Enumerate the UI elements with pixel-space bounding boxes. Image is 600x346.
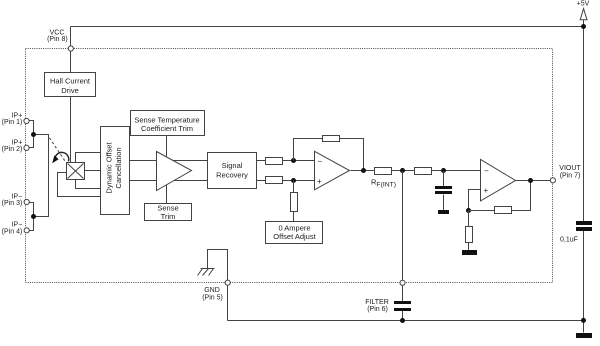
svg-text:+5V: +5V	[577, 0, 590, 7]
wire DOC to amp1 lower	[130, 180, 161, 182]
node amp2 plus	[291, 178, 296, 183]
node IP- junction	[31, 214, 36, 219]
svg-text:Dynamic Offset: Dynamic Offset	[105, 142, 114, 194]
wire to ground bar	[468, 243, 470, 251]
pin IP- 4 circle	[24, 228, 29, 233]
pin VIOUT circle	[550, 178, 555, 183]
hall current drive wire	[70, 97, 72, 163]
svg-text:−: −	[318, 157, 323, 166]
flux direction curved arrow	[52, 152, 69, 163]
resistor amp3 gain	[466, 227, 473, 243]
svg-text:Drive: Drive	[61, 86, 79, 95]
wire R2 to amp3	[432, 170, 481, 172]
svg-text:Recovery: Recovery	[216, 171, 248, 180]
svg-text:(Pin 1): (Pin 1)	[2, 119, 23, 126]
op-amp A3	[481, 159, 516, 201]
wire signal recovery to amp2 upper	[257, 160, 315, 162]
ground supply bar	[576, 333, 592, 338]
op-amp A2	[315, 151, 350, 190]
IC package boundary (dotted)	[26, 49, 553, 283]
svg-text:GND: GND	[204, 287, 220, 294]
wire primary conductor IP+ to IP-	[27, 121, 49, 231]
svg-text:Signal: Signal	[222, 161, 243, 170]
box 0 Ampere Offset Adjust	[266, 222, 323, 244]
pin GND circle	[225, 280, 230, 285]
svg-text:(Pin 3): (Pin 3)	[2, 200, 23, 207]
svg-text:Trim: Trim	[161, 212, 176, 221]
wire resistor to ground	[468, 211, 470, 227]
resistor offset adjust	[291, 193, 298, 212]
svg-text:(Pin 5): (Pin 5)	[202, 295, 223, 302]
wire amp1 to sense trim	[166, 183, 168, 204]
svg-text:(Pin 4): (Pin 4)	[2, 229, 23, 236]
svg-text:Offset Adjust: Offset Adjust	[273, 232, 316, 241]
box Hall Current Drive	[45, 73, 96, 97]
wire amp2 feedback	[294, 139, 364, 171]
box Dynamic Offset Cancellation	[101, 127, 130, 215]
hall element X	[67, 163, 85, 180]
node bottom right junction	[581, 318, 586, 323]
wire VCC drop	[70, 27, 72, 73]
wire DOC to amp1 upper	[130, 160, 161, 162]
node filter tap	[400, 168, 405, 173]
svg-text:VIOUT: VIOUT	[559, 165, 581, 172]
chassis ground internal	[198, 269, 215, 276]
svg-text:0,1uF: 0,1uF	[560, 237, 578, 244]
svg-text:FILTER: FILTER	[365, 299, 389, 306]
hall right wire	[85, 170, 101, 172]
node +5V junction	[581, 24, 586, 29]
node IP+ junction	[31, 132, 36, 137]
pin FILTER circle	[400, 280, 405, 285]
hall sense top wire	[76, 153, 101, 163]
resistor amp3 feedback	[495, 207, 512, 214]
wire amp3 out	[516, 180, 551, 182]
box Sense Temperature Coefficient Trim	[131, 111, 205, 136]
wire signal recovery to amp2 lower	[257, 180, 315, 182]
capacitor bypass 0.1uF	[576, 221, 592, 231]
wire right supply rail lower	[583, 231, 585, 333]
wire right supply rail upper	[583, 27, 585, 222]
wire offset adjust	[293, 181, 295, 222]
svg-text:(Pin 7): (Pin 7)	[560, 173, 581, 180]
wire +5V top rail	[71, 26, 584, 28]
resistor buffer input	[415, 168, 432, 175]
wire bottom ground rail	[228, 320, 584, 322]
wire GND connection	[208, 250, 228, 321]
pin IP+ 2 circle	[24, 145, 29, 150]
resistor RF(INT)	[375, 168, 392, 175]
wire RF to R2	[392, 170, 415, 172]
hall bottom wire	[76, 180, 101, 189]
box Signal Recovery	[208, 153, 257, 189]
resistor upper input	[266, 158, 283, 165]
wire amp1 out lower	[171, 180, 208, 182]
node amp2 out	[361, 168, 366, 173]
node amp3 out	[528, 178, 533, 183]
ground amp3	[462, 250, 477, 255]
wire sense temp trim to amp1	[166, 136, 168, 161]
flux coupling dashed arrow	[49, 138, 66, 163]
resistor lower input	[266, 177, 283, 184]
svg-text:−: −	[484, 166, 489, 175]
wire filter drop	[402, 171, 404, 302]
ground internal cap	[438, 210, 449, 214]
node filter cap bottom	[400, 318, 405, 323]
resistor feedback amp2	[323, 136, 340, 142]
svg-text:(Pin 8): (Pin 8)	[47, 36, 68, 43]
wire amp1 out upper	[171, 160, 208, 162]
node amp3 minus	[441, 168, 446, 173]
wire amp2 out	[351, 170, 375, 172]
svg-text:(Pin 2): (Pin 2)	[2, 146, 23, 153]
svg-text:Hall Current: Hall Current	[50, 76, 91, 85]
node amp2 minus	[291, 158, 296, 163]
op-amp A1	[157, 152, 192, 191]
svg-text:+: +	[484, 186, 489, 195]
svg-text:+: +	[317, 177, 322, 186]
node amp3 plus feedback	[466, 208, 471, 213]
wire feedback lower	[469, 181, 531, 211]
svg-text:Cancellation: Cancellation	[114, 147, 123, 188]
svg-text:(Pin 6): (Pin 6)	[367, 306, 388, 313]
pin VCC circle	[68, 46, 73, 51]
capacitor CF	[394, 301, 411, 321]
pin IP- 3 circle	[24, 199, 29, 204]
wire amp3 plus input	[469, 190, 481, 211]
svg-text:Coefficient Trim: Coefficient Trim	[141, 124, 193, 133]
capacitor internal	[435, 171, 452, 211]
box Sense Trim	[145, 204, 192, 222]
hall left wire	[58, 173, 101, 197]
pin IP+ 1 circle	[24, 118, 29, 123]
+5V supply symbol	[580, 9, 587, 27]
